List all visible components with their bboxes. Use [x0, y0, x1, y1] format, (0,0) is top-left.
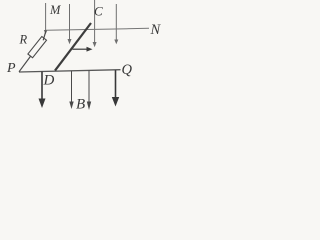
field arrow B5 (bottom, thick, below D): [39, 72, 46, 109]
svg-text:R: R: [19, 33, 28, 47]
resistor R: [28, 36, 47, 57]
rail PQ (bottom): [19, 70, 121, 72]
svg-text:M: M: [49, 3, 61, 17]
field arrow B6 (bottom small): [69, 71, 73, 109]
svg-text:D: D: [43, 73, 55, 89]
rail MN (top): [46, 28, 149, 30]
field line B4 (top): [114, 4, 118, 44]
field arrow B7 (bottom small): [87, 70, 91, 110]
rod CD: [55, 23, 91, 71]
svg-text:Q: Q: [122, 62, 133, 78]
svg-text:N: N: [150, 22, 162, 38]
field arrow B8 (bottom, thick, below Q): [112, 70, 119, 106]
wire resistor to M: [43, 31, 46, 41]
velocity arrow: [73, 47, 93, 52]
field line B2 (top): [68, 4, 72, 44]
field line B3 (top): [93, 0, 97, 47]
svg-text:C: C: [94, 4, 103, 19]
svg-text:B: B: [76, 97, 85, 113]
svg-text:P: P: [6, 61, 16, 76]
wire P to resistor: [19, 56, 31, 72]
field line B1 (top): [44, 3, 48, 34]
